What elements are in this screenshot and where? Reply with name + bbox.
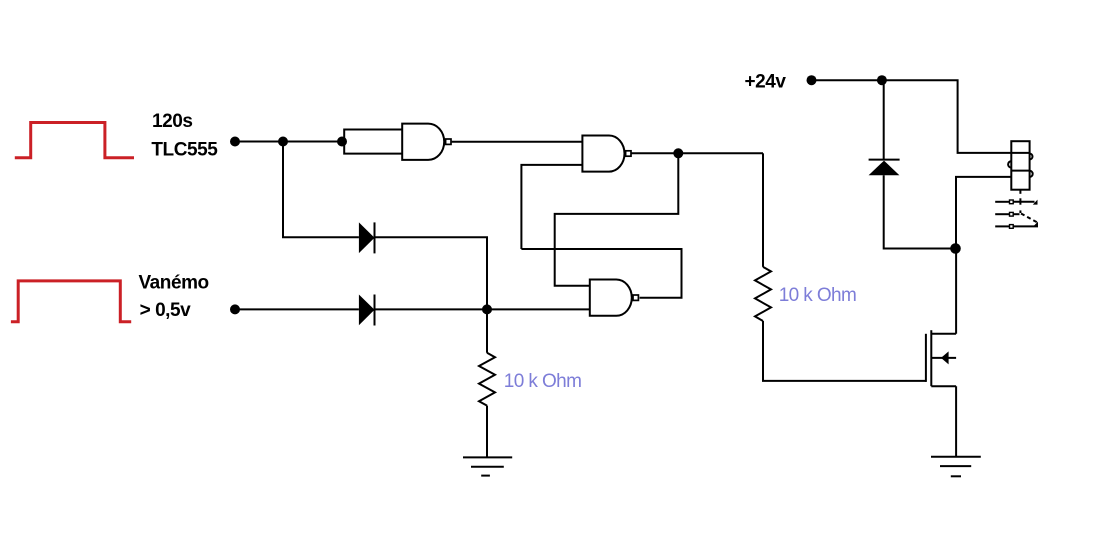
wire D3 anode to node D (884, 175, 956, 248)
diode D3 flyback (869, 159, 900, 161)
node dot +24v terminal (807, 75, 817, 85)
waveform pulse Vanemo input (11, 281, 131, 322)
diode D2 (359, 295, 375, 326)
node dot Vanemo input terminal (230, 304, 240, 314)
node junction A (278, 137, 288, 147)
wire R1 to ground (486, 406, 488, 458)
wire Vanemo input to diode D2 (235, 308, 359, 310)
node junction B (337, 137, 347, 147)
waveform pulse 120s input (15, 123, 134, 158)
node dot +24v junction (877, 75, 887, 85)
node dot Q (673, 148, 683, 158)
svg-text:10 k Ohm: 10 k Ohm (504, 371, 582, 392)
wire +24v rail (812, 80, 1030, 153)
svg-text:10 k Ohm: 10 k Ohm (779, 285, 857, 306)
diode D1 (359, 222, 375, 253)
node dot 120s input terminal (230, 137, 240, 147)
node dot D (950, 243, 961, 254)
ground GND1 (463, 456, 512, 458)
wire Q1 drain to node D (955, 249, 957, 334)
wire D2 cathode through node C to NAND U3 input B (375, 308, 590, 310)
wire U2 input B to feedback (521, 165, 582, 249)
svg-text:+24v: +24v (745, 72, 787, 93)
wire U1 output to U2 input A (452, 141, 583, 143)
NAND gate U3 (590, 280, 632, 316)
relay K1 contact common row with armature (995, 213, 1009, 215)
wire relay coil bottom terminal to node D (956, 177, 1011, 249)
wire node C down to resistor R1 (486, 309, 488, 352)
wire junction A down to diode D1 (283, 142, 359, 238)
node dot C (482, 304, 492, 314)
relay K1 contact NO row (995, 225, 1009, 227)
resistor R1 (479, 353, 495, 406)
wire D1 cathode to node C (375, 237, 488, 309)
wire Q1 source to ground (955, 386, 957, 457)
wire node Q to resistor R2 (762, 153, 764, 267)
wire 120s input to NAND U1 inputs (235, 141, 344, 143)
ground GND2 (931, 456, 981, 458)
wire U1 input tie rectangle (344, 130, 402, 142)
NAND gate U1 (402, 124, 444, 160)
wire U3 output feedback to U2 input B (521, 249, 681, 298)
wire R2 to MOSFET Q1 gate (763, 321, 926, 381)
svg-text:Vanémo: Vanémo (139, 272, 209, 293)
NAND gate U2 (582, 136, 624, 172)
resistor R2 (755, 267, 771, 321)
svg-text:> 0,5v: > 0,5v (140, 300, 192, 321)
wire node Q to U3 input A (cross coupling) (555, 153, 679, 285)
wire +24v junction down to diode D3 cathode (883, 80, 885, 159)
svg-text:TLC555: TLC555 (151, 139, 218, 160)
wire U2 output to node Q (631, 152, 763, 154)
relay K1 contact NC row (995, 201, 1009, 203)
relay K1 coil (1011, 141, 1029, 190)
MOSFET Q1 (925, 334, 927, 382)
svg-text:120s: 120s (152, 111, 192, 132)
